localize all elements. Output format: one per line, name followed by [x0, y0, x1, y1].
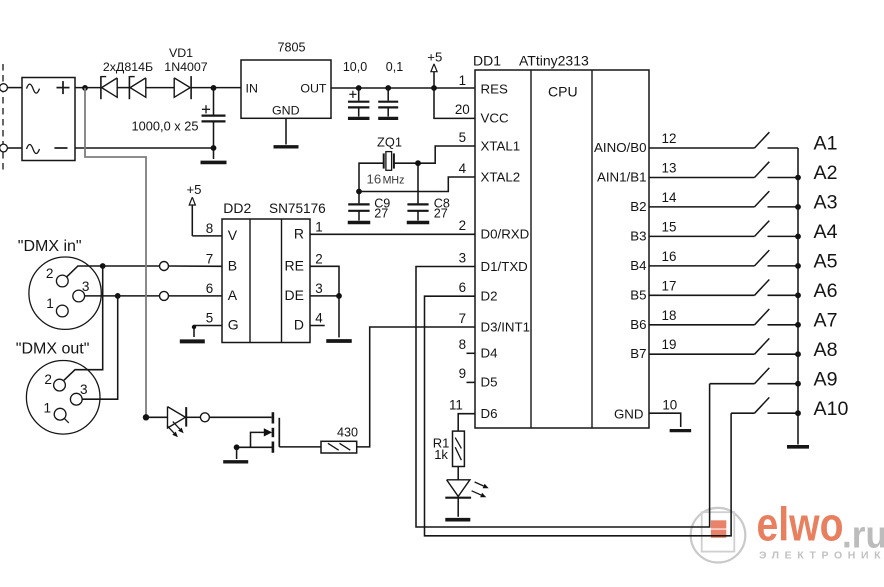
ground RE-DE	[326, 339, 352, 343]
IC DD2 SN75176 box	[222, 219, 310, 343]
wire between zeners	[117, 87, 129, 89]
svg-text:B3: B3	[630, 228, 646, 243]
wire from D1/TXD riser to switch A9	[710, 383, 755, 385]
wire LED to terminal	[186, 416, 200, 418]
svg-text:D4: D4	[481, 346, 498, 361]
wire switch S6 to bus	[768, 294, 799, 296]
DMX out pin 3	[70, 393, 82, 405]
svg-text:27: 27	[374, 207, 388, 221]
terminal AC1	[0, 84, 7, 92]
svg-text:16: 16	[662, 249, 677, 264]
switch S6 blade	[755, 280, 770, 296]
node LED anode	[143, 414, 149, 420]
switch S1 blade	[755, 132, 770, 148]
ground mosfet source	[223, 460, 248, 463]
node bus A6	[795, 292, 801, 298]
svg-text:1000,0 x 25: 1000,0 x 25	[132, 118, 199, 133]
wire switch S8 to bus	[768, 353, 799, 355]
wire 7805 OUT to +5 node	[331, 87, 475, 89]
wire switch S5 to bus	[768, 265, 799, 267]
node bus A3	[795, 204, 801, 210]
ground pin10	[670, 429, 692, 432]
svg-text:VD1: VD1	[169, 46, 193, 60]
capacitor C9	[348, 203, 369, 205]
node A junction	[115, 293, 121, 299]
svg-text:ZQ1: ZQ1	[377, 134, 402, 149]
svg-text:A5: A5	[814, 251, 838, 273]
wire source to ground	[237, 446, 273, 448]
wire B junction down to DMX-out pin2	[64, 266, 103, 380]
svg-text:G: G	[228, 317, 239, 333]
wire R1 to LED	[457, 467, 459, 480]
node plus rectifier	[82, 85, 88, 91]
svg-text:A1: A1	[814, 133, 838, 155]
svg-text:3: 3	[82, 279, 90, 294]
svg-text:A2: A2	[814, 162, 838, 184]
node C1 top	[211, 85, 217, 91]
svg-text:1: 1	[459, 73, 466, 88]
svg-text:1: 1	[46, 296, 54, 311]
ground C1	[201, 161, 227, 165]
svg-text:1: 1	[315, 219, 322, 234]
svg-text:AIN1/B1: AIN1/B1	[597, 170, 647, 185]
crystal ZQ1	[383, 153, 385, 168]
node C1 bottom on minus rail	[211, 145, 217, 151]
svg-text:13: 13	[662, 161, 677, 176]
svg-text:B4: B4	[630, 258, 646, 273]
ground C2	[348, 117, 370, 120]
transistor Q1 channel	[278, 418, 280, 447]
switch S7 blade	[755, 309, 770, 325]
svg-text:DD2: DD2	[223, 200, 251, 216]
svg-text:CPU: CPU	[548, 84, 578, 100]
switch S3 blade	[755, 191, 770, 207]
wire resistor 430 to mosfet	[279, 446, 321, 448]
terminal jumper B	[160, 262, 169, 271]
svg-text:3: 3	[315, 281, 322, 296]
svg-text:+5: +5	[427, 49, 442, 64]
svg-text:D6: D6	[481, 406, 498, 421]
elwo.ru logo watermark	[691, 498, 884, 563]
svg-text:10: 10	[662, 397, 677, 412]
svg-text:D: D	[294, 317, 304, 333]
svg-text:A3: A3	[814, 192, 838, 214]
node crystal left / XTAL2 junction	[356, 189, 362, 195]
svg-text:3: 3	[459, 250, 466, 265]
wire VD1 to 7805 IN	[191, 87, 241, 89]
wire D2 pin6 to A10 riser	[425, 296, 732, 536]
zener diode VD3 (2xD814B) second	[128, 76, 130, 99]
svg-text:MHz: MHz	[383, 175, 405, 187]
svg-text:7: 7	[459, 311, 466, 326]
svg-text:XTAL1: XTAL1	[481, 138, 521, 153]
wire LED2 to ground	[457, 498, 459, 517]
wire pin 12 to switch	[649, 147, 755, 149]
wire D6 pin11 to R1	[458, 414, 475, 431]
svg-text:6: 6	[206, 281, 213, 296]
terminal jumper A	[160, 291, 169, 300]
svg-text:A4: A4	[814, 221, 838, 243]
switch S10 blade	[755, 397, 770, 413]
svg-text:11: 11	[449, 398, 463, 413]
svg-text:SN75176: SN75176	[269, 201, 326, 216]
wire VCC from +5 node	[434, 88, 475, 118]
IC DD1 ATtiny2313 box	[475, 70, 649, 428]
svg-text:9: 9	[459, 366, 466, 381]
wire switch bus	[797, 148, 799, 445]
wire DMX-out pin1 notch	[64, 418, 69, 423]
svg-text:DD1: DD1	[473, 53, 501, 69]
capacitor C1 1000,0x25 electrolytic	[213, 88, 215, 115]
wire rectifier plus output	[75, 87, 101, 89]
svg-text:18: 18	[662, 308, 677, 323]
node bus A8	[795, 351, 801, 357]
svg-text:A8: A8	[814, 339, 838, 361]
wire DE junction down to ground	[338, 296, 340, 338]
wire from D2 riser to switch A10	[731, 412, 754, 414]
svg-text:"DMX in": "DMX in"	[18, 238, 82, 255]
DMX in pin 2	[56, 275, 68, 287]
svg-text:B5: B5	[630, 287, 646, 302]
wire minus rail	[75, 147, 214, 149]
svg-text:A6: A6	[814, 280, 838, 302]
wire pin 15 to switch	[649, 235, 755, 237]
terminal AC2	[0, 144, 7, 152]
wire DMX-in pin3 to A line	[85, 295, 113, 297]
svg-text:8: 8	[459, 337, 466, 352]
wire dashed panel edge	[2, 64, 4, 174]
wire A junction down to DMX-out pin3	[82, 296, 118, 399]
wire switch S7 to bus	[768, 324, 799, 326]
transistor Q1 mosfet drain bar	[272, 412, 275, 423]
svg-text:B6: B6	[630, 317, 646, 332]
svg-text:VCC: VCC	[481, 111, 509, 126]
switch S4 blade	[755, 221, 770, 237]
svg-text:AINO/B0: AINO/B0	[594, 140, 646, 155]
DMX out pin 1	[54, 408, 66, 420]
LED HL1 arrows	[173, 422, 180, 430]
transistor Q1 gate bar	[272, 428, 275, 437]
wire G pin5 stub	[194, 325, 222, 327]
svg-text:2: 2	[44, 372, 52, 387]
wire XTAL2 pin4 path	[359, 177, 475, 192]
wire V pin8 stub	[192, 235, 222, 237]
wire pin 14 to switch	[649, 206, 755, 208]
node +5	[431, 85, 437, 91]
svg-text:V: V	[228, 227, 238, 243]
wire 7805 gnd stub	[285, 118, 287, 144]
wire switch S4 to bus	[768, 235, 799, 237]
svg-text:B: B	[228, 257, 237, 273]
svg-text:8: 8	[206, 221, 213, 236]
svg-text:5: 5	[459, 130, 466, 145]
node bus A7	[795, 322, 801, 328]
wire LED anode	[146, 416, 168, 418]
capacitor C2 10,0 electrolytic	[358, 88, 360, 101]
svg-text:elwo: elwo	[757, 498, 844, 551]
svg-text:D2: D2	[481, 289, 498, 304]
svg-text:2: 2	[459, 218, 466, 233]
wire switch S1 to bus	[768, 147, 799, 149]
ground LED2	[445, 518, 470, 522]
LED HL2 indicator	[447, 480, 470, 497]
wire switch S2 to bus	[768, 177, 799, 179]
svg-text:RE: RE	[285, 257, 304, 273]
wire from plus node to LED (gray)	[85, 88, 146, 417]
svg-text:1: 1	[44, 401, 52, 416]
svg-text:19: 19	[662, 337, 677, 352]
node bus A9	[795, 381, 801, 387]
svg-text:1N4007: 1N4007	[164, 60, 208, 74]
ground C8	[407, 221, 430, 224]
svg-text:1k: 1k	[434, 447, 448, 462]
svg-text:A: A	[228, 287, 238, 303]
svg-text:27: 27	[434, 207, 448, 221]
resistor R1 1k	[453, 431, 465, 466]
svg-text:A9: A9	[814, 368, 838, 390]
svg-text:D0/RXD: D0/RXD	[481, 227, 530, 242]
svg-text:A7: A7	[814, 309, 838, 331]
wire pin8 D4 stub	[467, 352, 476, 354]
transistor Q1 source bar	[272, 442, 275, 453]
svg-text:DE: DE	[285, 287, 304, 303]
node bus A4	[795, 234, 801, 240]
wire switch S10 to bus	[768, 412, 799, 414]
wire D1/TXD pin3 to A9 riser	[416, 267, 710, 528]
wire R pin1 to CPU D0/RXD	[310, 233, 475, 235]
wire RE pin2 to DE junction	[310, 266, 339, 296]
wire jumper B to DD2 pin B	[169, 265, 223, 267]
capacitor C8	[407, 203, 428, 205]
switch S8 blade	[755, 338, 770, 354]
node source ground junction	[234, 444, 240, 450]
node bus A2	[795, 175, 801, 181]
wire pin 17 to switch	[649, 294, 755, 296]
DMX out pin 2	[54, 379, 66, 391]
svg-text:OUT: OUT	[300, 81, 327, 95]
svg-text:20: 20	[455, 102, 470, 117]
ground switch bus	[787, 445, 809, 449]
node cap C2 top	[356, 85, 362, 91]
wire crystal left	[359, 163, 384, 203]
svg-text:IN: IN	[246, 81, 258, 95]
svg-text:15: 15	[662, 219, 677, 234]
svg-text:ЭЛЕКТРОНИК: ЭЛЕКТРОНИК	[759, 550, 884, 562]
wire D3/INT1 pin7 to resistor 430	[357, 327, 475, 447]
svg-text:7805: 7805	[277, 41, 305, 55]
svg-text:12: 12	[662, 131, 677, 146]
wire AC1 to rectifier	[7, 87, 22, 89]
wire DE pin3 stub	[310, 295, 339, 297]
svg-text:D5: D5	[481, 375, 498, 390]
svg-text:D1/TXD: D1/TXD	[481, 259, 528, 274]
LED HL2 arrows	[475, 482, 484, 486]
svg-text:17: 17	[662, 278, 677, 293]
switch S9 blade	[755, 368, 770, 384]
regulator U1 7805 box	[241, 60, 331, 118]
svg-text:GND: GND	[272, 103, 300, 117]
wire switch S9 to bus	[768, 383, 799, 385]
wire zener to VD1	[146, 87, 174, 89]
wire DMX-in pin2 to B line	[67, 266, 103, 277]
DMX in pin 3	[73, 290, 85, 302]
svg-text:4: 4	[315, 311, 323, 326]
svg-text:ATtiny2313: ATtiny2313	[519, 53, 589, 69]
node bus A5	[795, 263, 801, 269]
svg-text:RES: RES	[481, 81, 508, 96]
wire crystal right down to C8	[417, 163, 419, 203]
switch S2 blade	[755, 162, 770, 178]
wire terminal to mosfet drain	[209, 416, 271, 418]
svg-text:2: 2	[315, 251, 322, 266]
zener diode VD2 (2xD814B) first	[100, 76, 102, 99]
svg-text:2хД814Б: 2хД814Б	[103, 60, 153, 74]
diode VD1	[174, 78, 190, 97]
wire XTAL1 pin5 path	[394, 146, 475, 163]
wire pin9 D5 stub	[467, 381, 476, 383]
svg-text:B2: B2	[630, 199, 646, 214]
ground G pin	[180, 339, 205, 343]
svg-text:2: 2	[46, 266, 54, 281]
ground C9	[348, 221, 371, 224]
rectifier bridge box	[22, 78, 75, 161]
wire pin 13 to switch	[649, 177, 755, 179]
svg-text:R: R	[294, 225, 304, 241]
ground 7805	[274, 145, 299, 148]
node cap C3 top	[385, 85, 391, 91]
svg-text:4: 4	[459, 161, 467, 176]
svg-text:D3/INT1: D3/INT1	[481, 319, 531, 334]
wire D pin4 stub	[310, 325, 325, 327]
switch S5 blade	[755, 250, 770, 266]
svg-text:"DMX out": "DMX out"	[16, 340, 90, 357]
wire pin 18 to switch	[649, 324, 755, 326]
transistor Q1 bulk arrow	[264, 428, 272, 436]
wire GND pin10	[649, 413, 681, 427]
node B junction	[100, 263, 106, 269]
wire B junction to jumper	[103, 265, 160, 267]
DMX in pin 1	[56, 305, 68, 317]
svg-text:5: 5	[206, 311, 213, 326]
svg-text:14: 14	[662, 190, 677, 205]
node RE-DE junction	[336, 293, 342, 299]
svg-text:B7: B7	[630, 346, 646, 361]
ground C3	[378, 117, 398, 120]
wire bulk to source	[251, 432, 265, 447]
svg-text:3: 3	[80, 382, 88, 397]
svg-text:A10: A10	[814, 398, 849, 420]
svg-text:16: 16	[367, 171, 382, 186]
svg-text:10,0: 10,0	[343, 60, 367, 74]
wire switch S3 to bus	[768, 206, 799, 208]
svg-text:+5: +5	[186, 182, 201, 197]
svg-text:GND: GND	[614, 406, 644, 421]
wire pin 19 to switch	[649, 353, 755, 355]
svg-text:XTAL2: XTAL2	[481, 169, 521, 184]
svg-text:0,1: 0,1	[386, 60, 403, 74]
wire AC2 to rectifier	[7, 147, 22, 149]
node bus A10	[795, 410, 801, 416]
connector XLR DMX in body	[29, 257, 101, 329]
connector XLR DMX out body	[26, 361, 100, 435]
LED HL1 indicator	[168, 407, 186, 428]
wire pin 16 to switch	[649, 265, 755, 267]
node crystal right	[415, 160, 421, 166]
wire jumper A to DD2 pin A	[169, 295, 223, 297]
capacitor C3 0,1	[387, 88, 389, 101]
resistor 430	[321, 441, 357, 453]
svg-text:7: 7	[206, 251, 213, 266]
svg-text:430: 430	[337, 425, 358, 439]
svg-text:6: 6	[459, 280, 466, 295]
terminal jumper LED	[200, 413, 209, 422]
